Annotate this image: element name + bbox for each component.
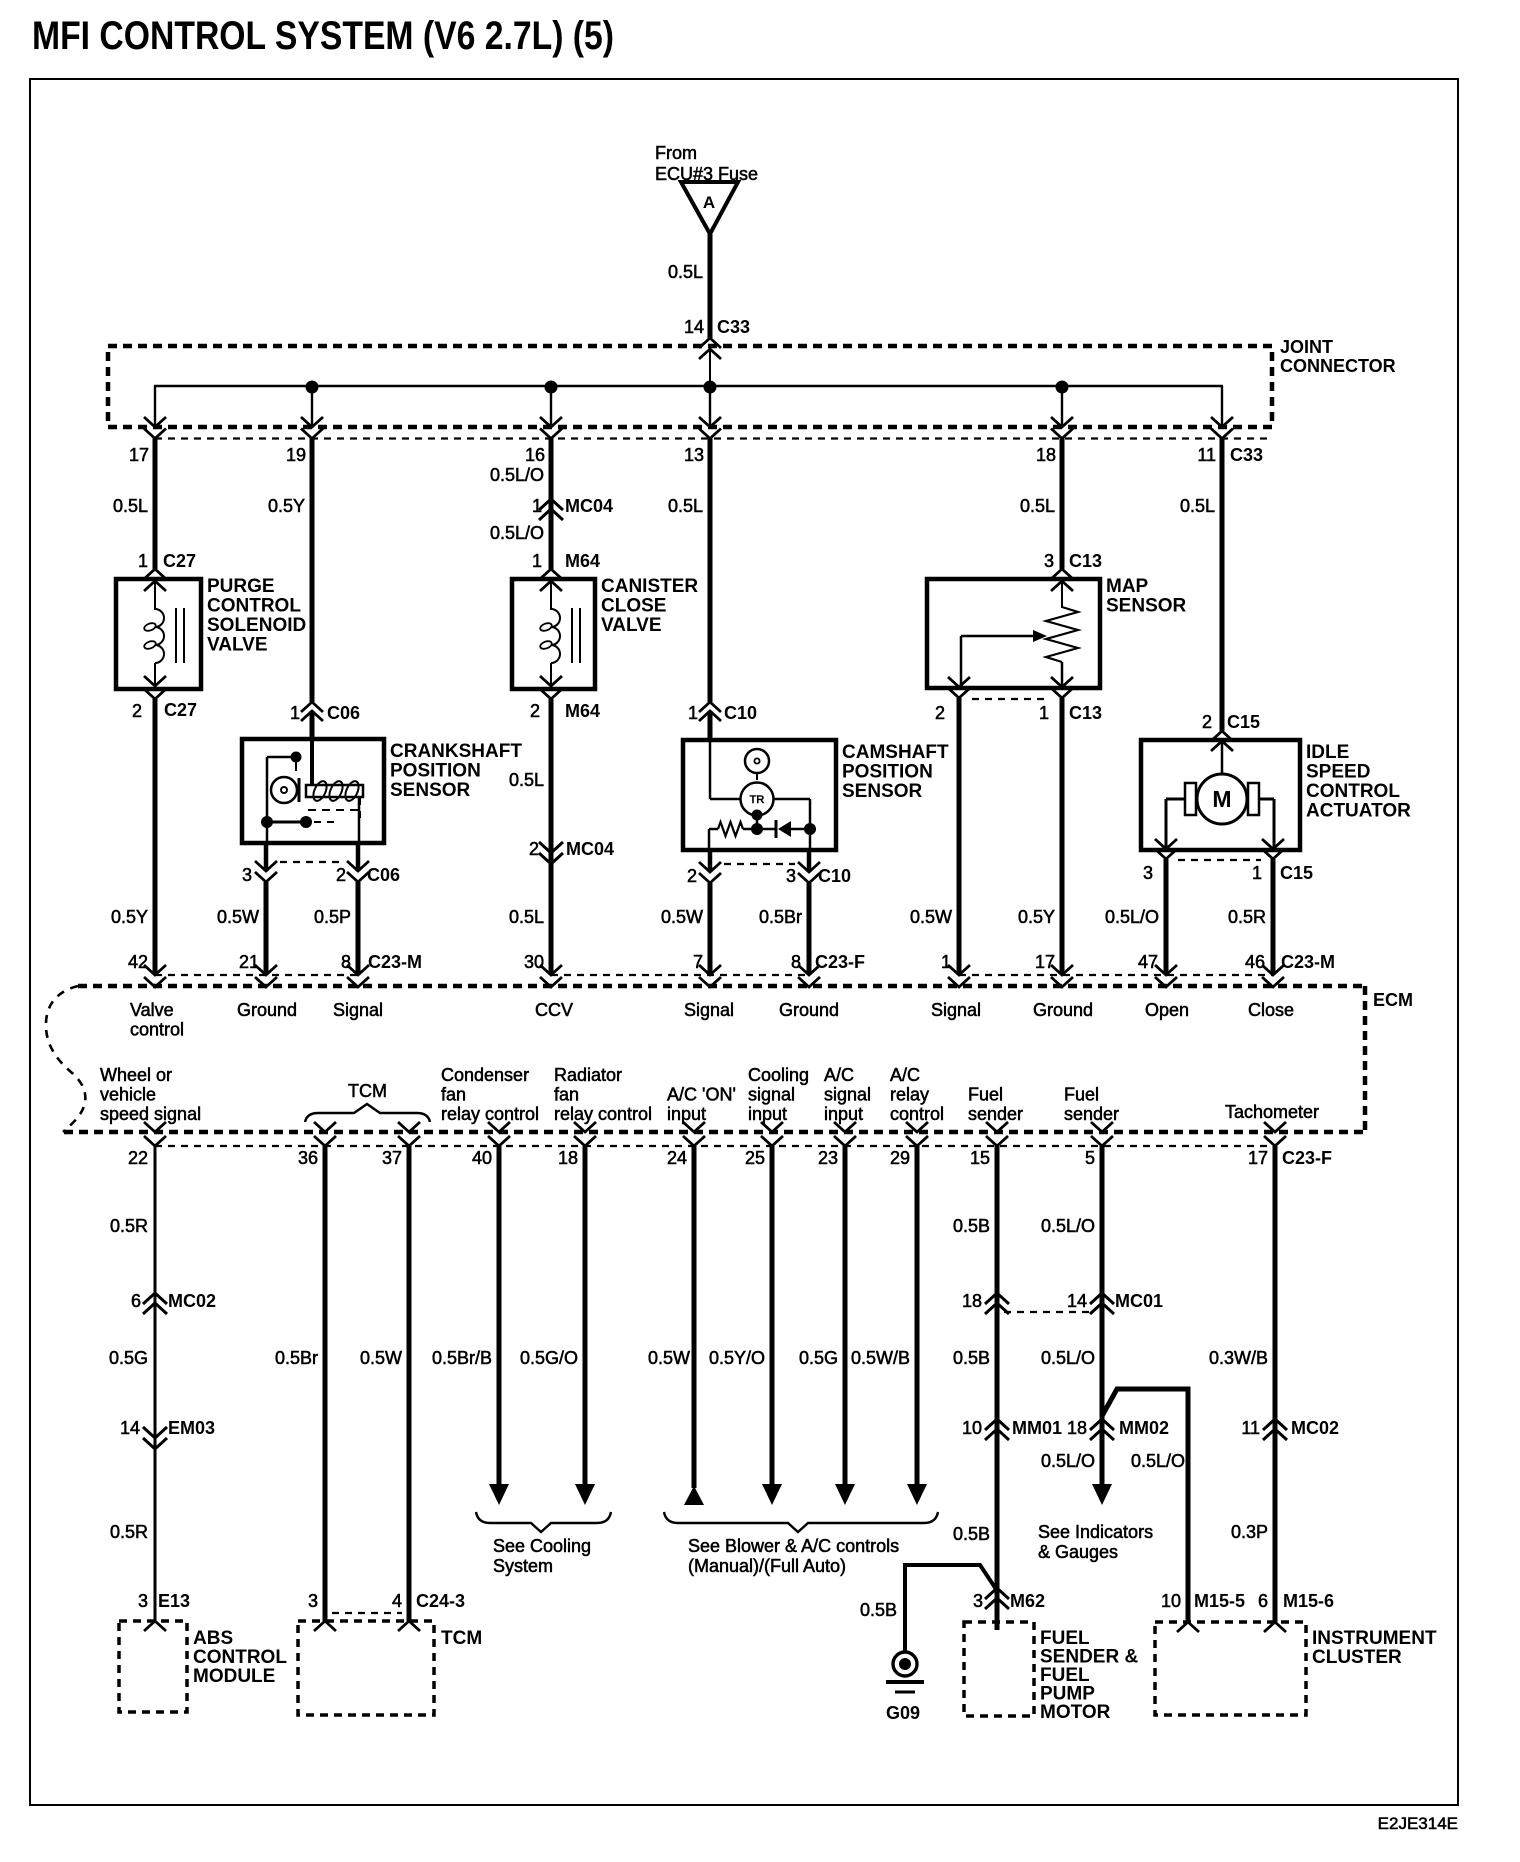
cam wires to TR (710, 798, 741, 801)
connector MC02 pin 11 (1263, 1419, 1287, 1430)
TCM brace (305, 1104, 430, 1122)
svg-text:C23-F: C23-F (1282, 1148, 1332, 1168)
purge solenoid coil L1 (154, 581, 156, 610)
svg-text:Valve: Valve (130, 1000, 174, 1020)
wire 0.5L/O fuel gauge (1100, 1146, 1105, 1440)
fuse source symbol A (681, 182, 738, 234)
wire 0.5Br to TCM (323, 1146, 328, 1621)
connector C24-3 pin 4 chevron (398, 1621, 420, 1631)
connector C06 pin 1 chevron (301, 702, 323, 712)
svg-text:0.5R: 0.5R (110, 1522, 148, 1542)
svg-text:MC01: MC01 (1115, 1291, 1163, 1311)
svg-text:CLUSTER: CLUSTER (1312, 1647, 1402, 1668)
svg-text:17: 17 (1248, 1148, 1268, 1168)
svg-text:0.5G: 0.5G (109, 1348, 148, 1368)
ECM bottom chevron x845 (834, 1122, 856, 1132)
map sensor wiper leg (960, 636, 963, 688)
wire 0.5W to TCM (407, 1146, 412, 1621)
svg-text:JOINT: JOINT (1280, 337, 1333, 357)
connector C33 chevron x710 (699, 417, 721, 427)
svg-text:1: 1 (688, 703, 698, 723)
svg-text:Condenser: Condenser (441, 1065, 529, 1085)
svg-text:C06: C06 (367, 865, 400, 885)
svg-text:MFI CONTROL SYSTEM (V6 2.7L) (: MFI CONTROL SYSTEM (V6 2.7L) (5) (32, 14, 614, 58)
svg-text:13: 13 (684, 445, 704, 465)
svg-text:control: control (890, 1104, 944, 1124)
wire 0.5L to purge valve (153, 438, 158, 569)
bus drop wire pin 17 (154, 386, 156, 427)
svg-text:CONTROL: CONTROL (193, 1647, 287, 1668)
ECM top chevron x1166 (1155, 965, 1177, 975)
connector C33 chevron x312 (301, 417, 323, 427)
connector M62 pin 3 (985, 1588, 1009, 1599)
connector C24-3 row line (332, 1612, 402, 1614)
svg-text:VALVE: VALVE (601, 615, 662, 636)
wire 0.5B fuel sender (995, 1146, 1000, 1630)
svg-text:See Cooling: See Cooling (493, 1536, 591, 1556)
map sensor potentiometer (1046, 607, 1078, 662)
connector C33 row line (155, 437, 1272, 439)
svg-text:See Blower & A/C controls: See Blower & A/C controls (688, 1536, 899, 1556)
crank sensor wire to ground leg (267, 756, 296, 759)
svg-text:18: 18 (1067, 1418, 1087, 1438)
svg-text:M: M (1212, 786, 1231, 812)
connector EM03 pin 14 (143, 1427, 167, 1438)
cam resistor R1 (709, 828, 718, 831)
svg-text:fan: fan (441, 1085, 466, 1105)
connector M64 pin 1 chevron (540, 569, 562, 579)
ECM bottom chevron x772 (761, 1122, 783, 1132)
ECM box top (78, 984, 1365, 989)
cam TR circle (741, 783, 774, 816)
wire 0.5R to ABS (154, 1146, 157, 1621)
connector C27 pin 1 chevron (144, 569, 166, 579)
svg-text:0.5B: 0.5B (953, 1348, 990, 1368)
svg-text:MAP: MAP (1106, 576, 1149, 597)
wire into bus (709, 349, 711, 387)
svg-text:1: 1 (1252, 863, 1262, 883)
svg-text:control: control (130, 1020, 184, 1040)
svg-text:E13: E13 (158, 1591, 190, 1611)
svg-text:G09: G09 (886, 1703, 920, 1723)
connector C24-3 pin 3 chevron (314, 1621, 336, 1631)
wire 0.5L canister to ECM (549, 699, 554, 974)
wire 0.5G/O radiator fan (583, 1146, 588, 1486)
cam sensor legs (708, 829, 711, 850)
isca motor M1 (1197, 774, 1247, 824)
svg-text:(Manual)/(Full Auto): (Manual)/(Full Auto) (688, 1556, 846, 1576)
svg-text:22: 22 (128, 1148, 148, 1168)
svg-text:3: 3 (1044, 551, 1054, 571)
ECM top chevron x1273 (1262, 965, 1284, 975)
svg-text:11: 11 (1241, 1418, 1260, 1438)
svg-text:relay control: relay control (441, 1104, 539, 1124)
wire 0.3W/B tachometer (1273, 1146, 1278, 1622)
svg-text:M62: M62 (1010, 1591, 1045, 1611)
connector C23-M row line (155, 974, 358, 976)
joint connector box (108, 346, 1272, 427)
svg-text:0.5L: 0.5L (509, 907, 544, 927)
svg-text:0.5L: 0.5L (668, 496, 703, 516)
svg-text:CONTROL: CONTROL (207, 596, 301, 617)
svg-text:M15-6: M15-6 (1283, 1591, 1334, 1611)
svg-text:sender: sender (1064, 1104, 1119, 1124)
wire 0.5L to idle speed actuator (1220, 438, 1225, 731)
instrument cluster box (1155, 1622, 1306, 1715)
connector C33 chevron x1222 (1211, 417, 1233, 427)
blower brace (664, 1512, 938, 1532)
svg-text:3: 3 (1143, 863, 1153, 883)
svg-text:MC02: MC02 (168, 1291, 216, 1311)
svg-text:See Indicators: See Indicators (1038, 1522, 1153, 1542)
svg-text:Signal: Signal (931, 1000, 981, 1020)
svg-text:3: 3 (973, 1591, 983, 1611)
wire 0.5Y to crankshaft sensor (310, 438, 315, 702)
svg-text:Wheel or: Wheel or (100, 1065, 172, 1085)
svg-text:0.5Y: 0.5Y (1018, 907, 1055, 927)
svg-text:0.5W: 0.5W (217, 907, 259, 927)
svg-text:A: A (703, 193, 715, 212)
svg-text:0.5L/O: 0.5L/O (1041, 1451, 1095, 1471)
svg-text:2: 2 (336, 865, 346, 885)
connector C27 pin 2 chevron (144, 676, 166, 686)
svg-text:Fuel: Fuel (1064, 1085, 1099, 1105)
svg-text:E2JE314E: E2JE314E (1378, 1814, 1458, 1833)
crank sensor junction dots (261, 816, 273, 828)
svg-text:Ground: Ground (1033, 1000, 1093, 1020)
svg-text:18: 18 (1036, 445, 1056, 465)
wire 0.5Br/B condenser fan (497, 1146, 502, 1486)
svg-text:29: 29 (890, 1148, 910, 1168)
svg-text:sender: sender (968, 1104, 1023, 1124)
svg-text:40: 40 (472, 1148, 492, 1168)
svg-text:ACTUATOR: ACTUATOR (1306, 801, 1411, 822)
svg-text:1: 1 (138, 551, 148, 571)
svg-text:ABS: ABS (193, 1628, 233, 1649)
connector C13 row line (972, 698, 1050, 700)
svg-text:1: 1 (290, 703, 300, 723)
svg-text:0.5L/O: 0.5L/O (490, 465, 544, 485)
svg-text:17: 17 (129, 445, 149, 465)
branch wire to instrument cluster (1102, 1389, 1188, 1622)
crank sensor dashed housing (308, 809, 360, 811)
wire 0.5Y purge to ECM (153, 699, 158, 974)
svg-text:0.5L/O: 0.5L/O (1105, 907, 1159, 927)
wire 0.5G A/C signal (843, 1146, 848, 1486)
svg-text:C15: C15 (1280, 863, 1313, 883)
ECM box left brace (46, 986, 85, 1132)
svg-text:CRANKSHAFT: CRANKSHAFT (390, 741, 522, 762)
svg-text:0.5W: 0.5W (910, 907, 952, 927)
junction dot A3 (704, 381, 717, 394)
wire to indicators and gauges (1100, 1429, 1105, 1486)
svg-text:0.5Br: 0.5Br (759, 907, 802, 927)
wire 0.5L to map sensor (1060, 438, 1065, 569)
svg-text:18: 18 (962, 1291, 982, 1311)
ECM bottom chevron x997 (986, 1122, 1008, 1132)
svg-text:0.5L: 0.5L (1020, 496, 1055, 516)
bus drop wire pin 19 (311, 387, 313, 427)
svg-text:M64: M64 (565, 701, 600, 721)
connector C15 row line (1178, 859, 1261, 861)
ABS control module box (119, 1621, 187, 1712)
idle speed control actuator box (1141, 740, 1300, 850)
crank sensor node dot (291, 752, 302, 763)
map sensor wiper arrow (961, 635, 1033, 638)
svg-text:C27: C27 (163, 551, 196, 571)
svg-text:Ground: Ground (779, 1000, 839, 1020)
bus wire (154, 385, 1223, 387)
connector M64 pin 2 chevron (540, 676, 562, 686)
connector C23-F row line (551, 974, 809, 976)
connector C23 row line right (959, 974, 1273, 976)
svg-text:0.5B: 0.5B (860, 1600, 897, 1620)
svg-text:16: 16 (525, 445, 545, 465)
wire 0.5Y/O cooling signal (770, 1146, 775, 1486)
crank reluctor wheel (271, 777, 297, 803)
svg-text:46: 46 (1245, 952, 1265, 972)
svg-text:speed signal: speed signal (100, 1104, 201, 1124)
svg-text:1: 1 (1039, 703, 1049, 723)
svg-text:21: 21 (239, 952, 259, 972)
fuel sender and pump box (964, 1622, 1034, 1716)
svg-text:SPEED: SPEED (1306, 762, 1370, 783)
connector C13 pin 2 chevron (948, 677, 970, 687)
svg-text:C33: C33 (1230, 445, 1263, 465)
svg-text:2: 2 (530, 701, 540, 721)
svg-text:2: 2 (132, 701, 142, 721)
svg-text:MODULE: MODULE (193, 1666, 275, 1687)
svg-text:0.5P: 0.5P (314, 907, 351, 927)
ECM top chevron x1062 (1051, 965, 1073, 975)
ECM bottom chevron x1102 (1091, 1122, 1113, 1132)
bus drop wire pin 16 (550, 387, 552, 427)
svg-text:5: 5 (1085, 1148, 1095, 1168)
connector MC02 pin 6 (143, 1293, 167, 1304)
svg-text:A/C: A/C (890, 1065, 920, 1085)
svg-text:relay control: relay control (554, 1104, 652, 1124)
svg-text:signal: signal (824, 1085, 871, 1105)
svg-text:PURGE: PURGE (207, 576, 275, 597)
wire 0.5Br cam to ECM (807, 883, 812, 974)
ECM bottom chevron x409 (398, 1122, 420, 1132)
connector C23-F bottom row line (155, 1145, 1275, 1147)
svg-text:& Gauges: & Gauges (1038, 1542, 1118, 1562)
svg-text:3: 3 (138, 1591, 148, 1611)
connector C15 pin 2 chevron (1211, 731, 1233, 741)
svg-text:INSTRUMENT: INSTRUMENT (1312, 1628, 1437, 1649)
wire 0.5L/O to canister valve (549, 438, 554, 569)
svg-text:C15: C15 (1227, 712, 1260, 732)
svg-text:0.5Y: 0.5Y (268, 496, 305, 516)
svg-text:11: 11 (1197, 445, 1216, 465)
connector C15 pin 1 chevron (1262, 839, 1284, 849)
svg-text:0.5R: 0.5R (1228, 907, 1266, 927)
connector C06 pin 2 chevron (347, 861, 369, 871)
svg-text:MM01: MM01 (1012, 1418, 1062, 1438)
svg-text:Cooling: Cooling (748, 1065, 809, 1085)
crank pickup coil loops (311, 779, 330, 803)
svg-text:3: 3 (308, 1591, 318, 1611)
svg-text:23: 23 (818, 1148, 838, 1168)
svg-text:Close: Close (1248, 1000, 1294, 1020)
svg-text:IDLE: IDLE (1306, 742, 1349, 763)
svg-text:1: 1 (532, 551, 542, 571)
svg-text:14: 14 (684, 317, 704, 337)
svg-text:C10: C10 (724, 703, 757, 723)
connector MC01 row line (1004, 1311, 1094, 1313)
svg-text:0.5B: 0.5B (953, 1216, 990, 1236)
svg-text:MC04: MC04 (565, 496, 613, 516)
camshaft position sensor box (683, 740, 836, 850)
cooling system brace (476, 1512, 611, 1532)
svg-text:MC04: MC04 (566, 839, 614, 859)
svg-text:0.5G: 0.5G (799, 1348, 838, 1368)
svg-text:37: 37 (382, 1148, 402, 1168)
svg-text:EM03: EM03 (168, 1418, 215, 1438)
wire 0.5L/O isca to ECM (1164, 859, 1169, 974)
svg-text:15: 15 (970, 1148, 990, 1168)
svg-text:C27: C27 (164, 700, 197, 720)
wire 0.5Y map to ECM (1060, 698, 1065, 974)
svg-text:0.5G/O: 0.5G/O (520, 1348, 578, 1368)
connector MC04 pin 1 (539, 499, 563, 510)
svg-text:fan: fan (554, 1085, 579, 1105)
svg-text:signal: signal (748, 1085, 795, 1105)
svg-text:Open: Open (1145, 1000, 1189, 1020)
svg-text:0.5Y: 0.5Y (111, 907, 148, 927)
ECM bottom chevron x585 (574, 1122, 596, 1132)
svg-text:Radiator: Radiator (554, 1065, 622, 1085)
svg-text:10: 10 (1161, 1591, 1181, 1611)
svg-text:SENSOR: SENSOR (1106, 596, 1187, 617)
svg-text:42: 42 (128, 952, 148, 972)
svg-text:POSITION: POSITION (842, 762, 933, 783)
connector C33 chevron x551 (540, 417, 562, 427)
svg-text:14: 14 (1067, 1291, 1087, 1311)
purge control solenoid valve box (116, 579, 201, 689)
svg-text:0.5Y/O: 0.5Y/O (709, 1348, 765, 1368)
wire 0.5L to camshaft sensor (708, 438, 713, 702)
ECM bottom chevron x917 (906, 1122, 928, 1132)
junction dot A1 (306, 381, 319, 394)
svg-text:1: 1 (532, 496, 542, 516)
svg-text:C23-M: C23-M (1281, 952, 1335, 972)
svg-text:input: input (748, 1104, 787, 1124)
svg-text:Signal: Signal (333, 1000, 383, 1020)
svg-text:0.5Br/B: 0.5Br/B (432, 1348, 492, 1368)
ground branch wire 0.5B (905, 1565, 996, 1653)
wire 0.5P crank to ECM (356, 882, 361, 974)
crank pickup coil core (306, 785, 363, 797)
ECM top chevron x155 (144, 965, 166, 975)
ECM bottom chevron x694 (683, 1122, 705, 1132)
wire 0.5W crank to ECM (264, 882, 269, 974)
svg-text:relay: relay (890, 1085, 929, 1105)
canister solenoid core bars (571, 608, 573, 663)
svg-text:0.5W: 0.5W (661, 907, 703, 927)
svg-text:Signal: Signal (684, 1000, 734, 1020)
connector C10 pin 1 chevron (699, 702, 721, 712)
svg-text:C33: C33 (717, 317, 750, 337)
svg-text:3: 3 (242, 865, 252, 885)
connector C33 chevron x1062 (1051, 417, 1073, 427)
ECM bottom chevron x1275 (1264, 1122, 1286, 1132)
TCM box (298, 1621, 434, 1715)
ECM bottom chevron x499 (488, 1122, 510, 1132)
cam diode D1 (757, 828, 776, 831)
ECM box right (1363, 986, 1368, 1132)
svg-text:0.5L: 0.5L (668, 262, 703, 282)
svg-text:CANISTER: CANISTER (601, 576, 698, 597)
crank sensor signal leg (358, 797, 361, 843)
junction dot A2 (545, 381, 558, 394)
connector C10 pin 3 chevron (798, 862, 820, 872)
purge solenoid core bars (175, 608, 177, 663)
ECM top chevron x959 (948, 965, 970, 975)
svg-text:SENSOR: SENSOR (390, 780, 471, 801)
svg-text:0.5B: 0.5B (953, 1524, 990, 1544)
wire 0.5W A/C ON input (692, 1146, 697, 1488)
svg-text:input: input (824, 1104, 863, 1124)
crank sensor entry wire (310, 741, 314, 786)
isca entry wire (1221, 742, 1224, 774)
svg-text:VALVE: VALVE (207, 635, 268, 656)
svg-text:C24-3: C24-3 (416, 1591, 465, 1611)
svg-text:CLOSE: CLOSE (601, 596, 666, 617)
svg-text:18: 18 (558, 1148, 578, 1168)
connector C06 pin 3 chevron (255, 861, 277, 871)
svg-text:10: 10 (962, 1418, 982, 1438)
svg-text:CONNECTOR: CONNECTOR (1280, 356, 1396, 376)
svg-text:Fuel: Fuel (968, 1085, 1003, 1105)
svg-text:2: 2 (687, 866, 697, 886)
canister solenoid coil L2 (550, 581, 552, 610)
svg-text:8: 8 (791, 952, 801, 972)
svg-text:C13: C13 (1069, 703, 1102, 723)
svg-text:SOLENOID: SOLENOID (207, 615, 306, 636)
ECM top chevron x551 (540, 965, 562, 975)
svg-text:0.3P: 0.3P (1231, 1522, 1268, 1542)
connector MM02 pin 18 (1090, 1419, 1114, 1430)
connector C33 pin 14 chevron (699, 338, 721, 348)
svg-text:C23-F: C23-F (815, 952, 865, 972)
svg-text:0.5W: 0.5W (648, 1348, 690, 1368)
cam sensor entry wire (709, 742, 712, 799)
crank sensor ground leg (266, 822, 269, 843)
svg-text:POSITION: POSITION (390, 761, 481, 782)
svg-text:M15-5: M15-5 (1194, 1591, 1245, 1611)
svg-text:0.5L/O: 0.5L/O (1041, 1348, 1095, 1368)
svg-text:14: 14 (120, 1418, 140, 1438)
svg-text:2: 2 (935, 703, 945, 723)
svg-text:CAMSHAFT: CAMSHAFT (842, 742, 949, 763)
bus drop wire pin 11 (1221, 386, 1223, 427)
connector E13 chevron (144, 1621, 166, 1631)
wire 0.5R isca to ECM (1271, 859, 1276, 974)
wire 0.5W cam to ECM (708, 883, 713, 974)
svg-text:30: 30 (524, 952, 544, 972)
svg-text:CONTROL: CONTROL (1306, 781, 1400, 802)
svg-text:C06: C06 (327, 703, 360, 723)
svg-text:A/C 'ON': A/C 'ON' (667, 1085, 736, 1105)
svg-text:MC02: MC02 (1291, 1418, 1339, 1438)
isca open leg (1166, 798, 1185, 801)
isca motor brushes (1185, 783, 1196, 815)
connector C06 row line (280, 861, 345, 863)
connector M15-5 pin 10 chevron (1177, 1622, 1199, 1632)
svg-text:vehicle: vehicle (100, 1085, 156, 1105)
